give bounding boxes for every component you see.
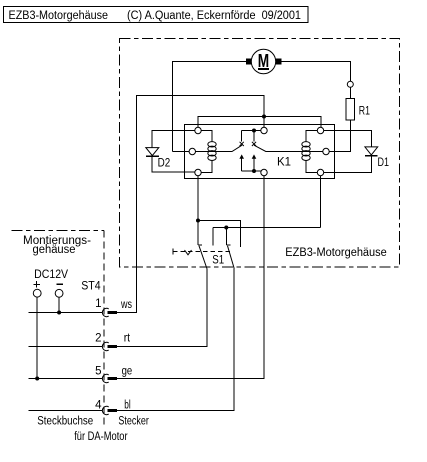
arrow head right [252,154,257,158]
wire S1 pole1 down to rt [117,268,207,346]
wire R1 bottom to relay common right [329,120,350,152]
wire mid-left terminal to motor-left riser [173,151,190,153]
bottom contact bus [242,170,262,172]
junction dot pole1 [196,219,200,223]
junction dot plus-ge [35,377,39,381]
right coil wiring bottom [306,160,317,172]
S1 pole2 pivot wire [225,228,227,245]
Montierungsgehäuse top border [12,230,105,232]
relay K1 box [185,125,335,179]
wire A joining relay top terminals [198,117,321,128]
wire pole1 junction to fixed contact right [198,221,241,247]
S1 mechanical link end tick [172,249,174,255]
svg-text:5: 5 [95,366,101,378]
junction dot pole2 [224,226,228,230]
diode D1 top wire [324,131,372,147]
right coil loops [302,142,310,147]
wire left stub pin1 [29,312,103,314]
pin 1 plug [108,311,118,314]
top contact bus [242,130,261,132]
pin 5 plug [108,377,118,380]
motor M1 circle [251,49,275,73]
diode D1 cathode bar [365,155,378,157]
diode D2 top wire [152,131,195,148]
relay terminal bottom-middle [261,169,267,175]
S1 cross bus [213,227,321,229]
pin 5 socket [102,374,108,382]
top contact shaft right [253,131,255,142]
test point circle above R1 [347,81,353,87]
motor left terminal square [246,59,252,65]
svg-text:ST4: ST4 [81,281,101,293]
pin 2 plug [108,345,118,348]
S1 fixed contact left [212,228,214,246]
arrow shaft left [241,159,243,171]
wire S1 pole2 down to bl [117,268,234,410]
junction dot bottom contact [252,169,256,173]
pin 4 socket [102,406,108,414]
relay terminal bottom-right [317,169,323,175]
pin 2 socket [102,342,108,350]
svg-text:ge: ge [122,366,133,378]
relay terminal mid-right [323,148,329,154]
pin 4 plug [108,409,118,412]
left coil wiring bottom [201,160,212,172]
relay terminal bottom-left [195,169,201,175]
svg-text:K1: K1 [277,156,291,168]
plus sign [34,281,41,287]
svg-text:Steckbuchse: Steckbuchse [37,416,93,428]
diode D2 bottom wire [152,156,195,172]
svg-text:EZB3-Motorgehäuse: EZB3-Motorgehäuse [9,10,109,22]
right contact arm [254,145,323,151]
svg-text:gehäuse: gehäuse [33,244,76,256]
junction dot minus-ws [57,311,61,315]
svg-text:D2: D2 [158,158,171,170]
arrow head left [239,154,244,158]
svg-text:rt: rt [124,333,131,345]
S1 pole2 arm [228,246,235,269]
contact x mark left [240,142,244,146]
resistor R1 [346,99,355,121]
arrow shaft right [253,159,255,171]
svg-text:4: 4 [95,400,102,412]
wire relay bottom-middle down to ge [117,176,264,379]
wire minus terminal down to ws wire [58,297,60,312]
relay terminal top-middle [261,127,267,133]
svg-text:S1: S1 [212,255,224,267]
wire left stub pin5 [29,378,103,380]
left coil loops [208,142,216,147]
svg-text:R1: R1 [359,106,370,118]
DC12V plus terminal [33,289,41,297]
top contact shaft left [241,131,243,142]
wire motor left to relay common left [173,62,247,152]
wire left stub pin4 [29,410,103,412]
svg-text:EZB3-Motorgehäuse: EZB3-Motorgehäuse [285,247,387,259]
S1 pole2 pivot tick [226,244,230,246]
diode D1 bottom wire [324,156,372,173]
title box [4,7,309,23]
right coil wiring top [306,131,317,142]
wire ws riser: pin1 up and across to relay top-middle [117,96,264,313]
diode D2 cathode bar [146,155,159,157]
DC12V minus terminal [55,289,63,297]
svg-text:M: M [258,51,269,71]
S1 pole1 pivot tick [198,244,202,246]
relay terminal mid-left [189,148,195,154]
svg-text:2: 2 [95,333,101,345]
left contact arm [196,145,243,151]
wire relay bottom-left down to S1 pole1 [197,176,199,245]
svg-text:für DA-Motor: für DA-Motor [74,431,128,443]
pin 1 socket [102,308,108,316]
Montierungsgehäuse right dashed border [103,231,105,426]
diode D1 triangle [365,147,378,155]
S1 pole1 arm [199,246,207,269]
wire motor right to R1 [282,62,351,82]
wire relay bottom-right down [320,176,322,228]
svg-text:Stecker: Stecker [118,416,149,428]
svg-text:1: 1 [95,298,101,310]
svg-text:ws: ws [120,299,132,311]
contact x mark right [252,142,256,146]
motor M underline [258,68,269,70]
svg-text:D1: D1 [378,157,390,169]
S1 manual actuator v [185,250,192,255]
motor right terminal square [276,59,282,65]
wire plus terminal down to ge wire [36,297,38,378]
relay terminal top-right [317,127,323,133]
svg-text:bl: bl [124,400,130,412]
relay terminal top-left [195,127,201,133]
minus sign [57,283,64,285]
wire test point to R1 [349,87,351,98]
left coil wiring top [201,131,212,142]
junction dot top contact [252,129,256,133]
wire left stub pin2 [29,346,103,348]
junction dot node supply [262,115,266,119]
svg-text:DC12V: DC12V [34,269,68,281]
S1 mechanical link dashed [173,251,231,253]
EZB3 housing dash-dot box [120,39,400,268]
diode D2 triangle [146,148,159,156]
svg-text:(C) A.Quante, Eckernförde 09/: (C) A.Quante, Eckernförde 09/2001 [127,10,301,22]
